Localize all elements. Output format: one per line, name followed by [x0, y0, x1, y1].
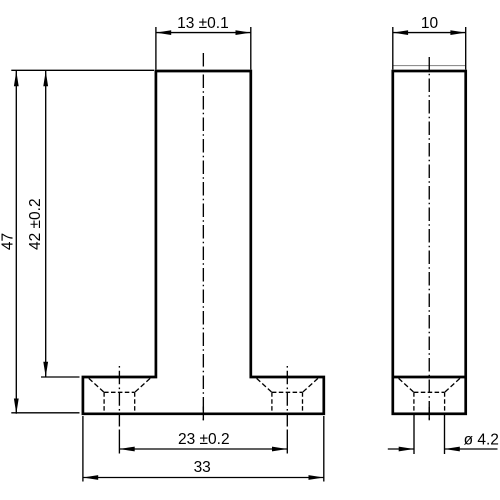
svg-text:47: 47: [0, 233, 17, 250]
front view vertical centerline of stem: [202, 53, 204, 420]
dimension 23 +/-0.2 right arrowhead: [272, 447, 287, 452]
side view faint top auxiliary line: [393, 65, 466, 67]
dimension 13 +/-0.1 extension lines: [156, 27, 251, 70]
dimension 42 +/-0.2 top arrowhead: [43, 71, 48, 86]
dimension 23 +/-0.2 extension lines: [119, 430, 287, 454]
dimension 33 extension lines: [83, 416, 324, 482]
dimension 42 +/-0.2 dimension line: [45, 71, 47, 377]
dimension 42 +/-0.2 extension line: [41, 376, 80, 378]
svg-text:42 ±0.2: 42 ±0.2: [27, 198, 44, 250]
dimension dia 4.2 extension lines: [414, 415, 445, 454]
dimension dia 4.2 right arrowhead: [445, 447, 460, 452]
dimension dia 4.2 left arrowhead: [399, 447, 414, 452]
front view T-profile outline: [83, 71, 324, 414]
dimension 10 right arrowhead: [450, 30, 465, 35]
dimension 47 dimension line: [15, 71, 17, 414]
dimension 42 +/-0.2 bottom arrowhead: [43, 362, 48, 377]
dimension 23 +/-0.2 dimension line: [119, 448, 287, 450]
dimension 13 +/-0.1 right arrowhead: [236, 30, 251, 35]
side view base top edge: [393, 376, 466, 379]
svg-text:23 ±0.2: 23 ±0.2: [178, 431, 230, 448]
side view hole bore hidden lines: [414, 392, 445, 412]
front view left countersink hidden lines: [89, 378, 150, 392]
dimension 33 right arrowhead: [309, 475, 324, 480]
front view left hole centerline: [118, 366, 120, 427]
dimension 47 top arrowhead: [14, 71, 19, 86]
svg-text:13 ±0.1: 13 ±0.1: [177, 15, 229, 32]
dimension 10 dimension line: [393, 32, 466, 34]
dimension 33 left arrowhead: [83, 475, 98, 480]
dimension 23 +/-0.2 left arrowhead: [119, 447, 134, 452]
dimension 33 dimension line: [83, 477, 324, 479]
dimension 13 +/-0.1 dimension line: [156, 32, 251, 34]
side view outline rectangle: [393, 71, 466, 414]
front view right hole bore hidden lines: [272, 392, 303, 412]
front view right countersink hidden lines: [257, 378, 318, 392]
dimension dia 4.2 dimension lines: [388, 448, 498, 450]
svg-text:ø 4.2: ø 4.2: [464, 431, 499, 448]
dimension 10 extension lines: [393, 27, 466, 70]
dimension 47 extension lines: [11, 70, 154, 413]
front view right hole centerline: [286, 366, 288, 427]
dimension 13 +/-0.1 left arrowhead: [156, 30, 171, 35]
dimension 47 bottom arrowhead: [14, 399, 19, 414]
front view left hole bore hidden lines: [104, 392, 135, 412]
dimension 10 left arrowhead: [393, 30, 408, 35]
side view countersink hidden lines: [399, 378, 460, 392]
svg-text:10: 10: [421, 15, 439, 32]
svg-text:33: 33: [194, 459, 211, 476]
side view vertical centerline: [428, 57, 430, 420]
